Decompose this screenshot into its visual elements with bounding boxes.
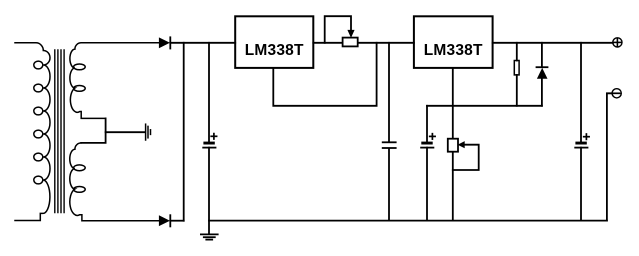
terminal plus [613, 38, 622, 47]
diode D2 [159, 215, 170, 226]
transformer T1 secondary upper winding [70, 43, 159, 119]
wire riser from D2 to top rail [183, 43, 185, 221]
transformer T1 primary winding [15, 43, 50, 221]
potentiometer P1 wiper arrowhead [347, 30, 354, 38]
center tap wire to ground [106, 131, 145, 133]
svg-text:LM338T: LM338T [424, 42, 483, 59]
resistor R1 [514, 43, 519, 106]
wire U1 output to P1 [313, 42, 341, 44]
transformer T1 secondary lower winding [70, 143, 159, 221]
diode D3 [537, 43, 548, 106]
svg-text:LM338T: LM338T [245, 42, 304, 59]
potentiometer P2 wiper arrowhead [458, 141, 465, 148]
capacitor C3 (electrolytic) [421, 106, 433, 221]
transformer center tap wire [81, 118, 105, 142]
wire D2 to riser [170, 220, 183, 222]
capacitor C2 [383, 43, 396, 221]
wire P2 bottom to rail [452, 153, 454, 221]
potentiometer P1 wiper loop [325, 16, 351, 43]
wire bottom rail [209, 220, 607, 222]
ground (center tap, pointing right) [146, 124, 151, 140]
terminal minus [612, 89, 621, 98]
diode D1 [159, 37, 170, 48]
capacitor C4 (output, electrolytic) [575, 43, 587, 221]
capacitor C1 (filter, electrolytic) [203, 43, 215, 234]
wire minus terminal to bottom rail [607, 93, 612, 220]
plus sign C3 [430, 134, 435, 139]
plus sign C4 [584, 134, 589, 139]
wire top rail (D1 to U1 input) [170, 42, 235, 44]
wire ADJ node horizontal (C3 / R1 / D3) [427, 105, 542, 107]
wire U2 output to plus terminal [493, 42, 613, 44]
regulator U2 LM338T [414, 16, 493, 68]
transformer T1 core [55, 50, 64, 213]
regulator U1 LM338T [235, 16, 313, 68]
wire ADJ U2 pin down to P2 [452, 68, 454, 138]
wire P1 to U2 input [359, 42, 414, 44]
potentiometer P2 wiper loop [453, 145, 479, 170]
potentiometer P2 body [448, 139, 458, 152]
potentiometer P1 body [343, 38, 358, 47]
ground (main) [201, 234, 218, 239]
wire ADJ U1 return loop [273, 43, 376, 106]
plus sign C1 [211, 134, 216, 139]
